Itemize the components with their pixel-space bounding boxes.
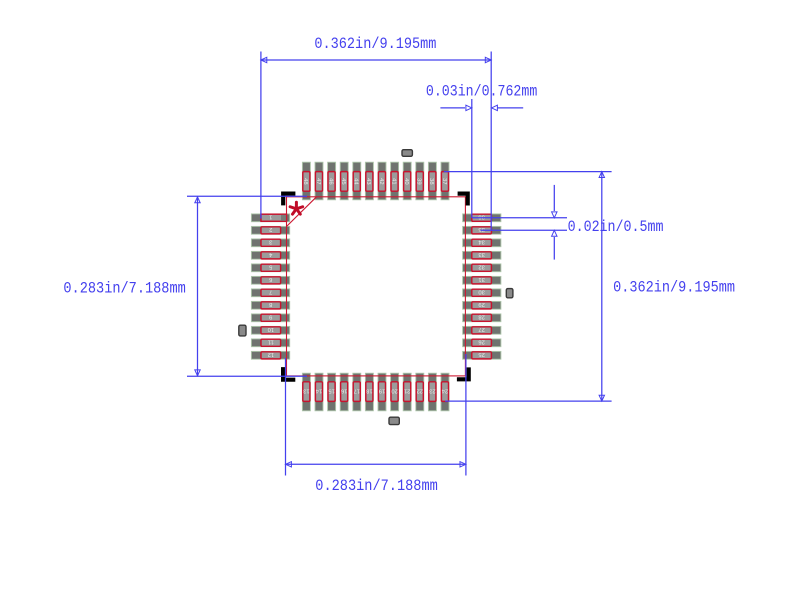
svg-text:2: 2 bbox=[269, 226, 272, 232]
svg-text:12: 12 bbox=[268, 351, 274, 357]
svg-text:0.02in/0.5mm: 0.02in/0.5mm bbox=[568, 218, 664, 236]
pad 10 (pin 10) bbox=[251, 326, 289, 334]
pad 7 (pin 7) bbox=[251, 289, 289, 297]
svg-text:9: 9 bbox=[269, 314, 272, 320]
pad 24 (pin 24) bbox=[441, 373, 449, 411]
pad 26 (pin 26) bbox=[463, 339, 501, 347]
svg-text:31: 31 bbox=[478, 276, 484, 282]
svg-text:47: 47 bbox=[315, 178, 321, 184]
pad 21 (pin 21) bbox=[403, 373, 411, 411]
svg-text:24: 24 bbox=[441, 387, 448, 393]
pad 28 (pin 28) bbox=[463, 314, 501, 322]
pad 34 (pin 34) bbox=[463, 239, 501, 247]
pad 32 (pin 32) bbox=[463, 264, 501, 272]
svg-text:15: 15 bbox=[328, 387, 334, 393]
pad 40 (pin 40) bbox=[403, 162, 411, 200]
pad 37 (pin 37) bbox=[441, 162, 449, 200]
pad 33 (pin 33) bbox=[463, 251, 501, 259]
dimension: bottom body size 0.283in/7.188mm bbox=[286, 354, 466, 495]
silkscreen bracket top-right bbox=[458, 194, 468, 206]
svg-text:29: 29 bbox=[478, 301, 484, 307]
svg-text:23: 23 bbox=[429, 387, 435, 393]
svg-text:5: 5 bbox=[269, 264, 272, 270]
svg-text:0.283in/7.188mm: 0.283in/7.188mm bbox=[315, 477, 438, 495]
pad 38 (pin 38) bbox=[428, 162, 436, 200]
svg-text:25: 25 bbox=[478, 351, 484, 357]
svg-text:27: 27 bbox=[478, 326, 484, 332]
svg-text:37: 37 bbox=[441, 178, 447, 184]
svg-text:14: 14 bbox=[315, 387, 322, 393]
svg-text:32: 32 bbox=[478, 264, 484, 270]
svg-text:0.362in/9.195mm: 0.362in/9.195mm bbox=[613, 278, 735, 296]
svg-text:38: 38 bbox=[428, 178, 434, 184]
svg-text:8: 8 bbox=[269, 301, 272, 307]
svg-text:3: 3 bbox=[269, 239, 272, 245]
pad 36 (pin 36) bbox=[463, 214, 501, 222]
pad 12 (pin 12) bbox=[251, 351, 289, 359]
pad 45 (pin 45) bbox=[340, 162, 348, 200]
svg-text:35: 35 bbox=[478, 226, 484, 232]
pin-1 marker asterisk bbox=[290, 202, 303, 214]
svg-text:0.362in/9.195mm: 0.362in/9.195mm bbox=[314, 35, 436, 53]
pad 16 (pin 16) bbox=[340, 373, 348, 411]
orientation mark bottom bbox=[389, 417, 399, 424]
pad 29 (pin 29) bbox=[463, 301, 501, 309]
pad 25 (pin 25) bbox=[463, 351, 501, 359]
pad 1 (pin 1) bbox=[251, 214, 289, 222]
pad 23 (pin 23) bbox=[428, 373, 436, 411]
svg-text:13: 13 bbox=[303, 387, 309, 393]
orientation mark right bbox=[506, 289, 513, 298]
svg-text:6: 6 bbox=[269, 276, 272, 282]
pad 2 (pin 2) bbox=[251, 226, 289, 234]
svg-text:16: 16 bbox=[341, 387, 347, 393]
pad 3 (pin 3) bbox=[251, 239, 289, 247]
svg-text:10: 10 bbox=[268, 326, 274, 332]
svg-text:40: 40 bbox=[403, 178, 409, 184]
dimension: top lead span 0.362in/9.195mm bbox=[261, 35, 491, 230]
dimension: right lead span 0.362in/9.195mm bbox=[444, 172, 735, 402]
pad 9 (pin 9) bbox=[251, 314, 289, 322]
pad 6 (pin 6) bbox=[251, 276, 289, 284]
dimension: lead length 0.03in/0.762mm bbox=[426, 82, 537, 218]
package body outline bbox=[287, 197, 466, 376]
svg-text:41: 41 bbox=[390, 178, 396, 184]
svg-text:45: 45 bbox=[340, 178, 346, 184]
svg-text:19: 19 bbox=[379, 387, 385, 393]
pad 42 (pin 42) bbox=[378, 162, 386, 200]
pad 31 (pin 31) bbox=[463, 276, 501, 284]
silkscreen bracket bottom-right bbox=[457, 367, 469, 379]
pad 41 (pin 41) bbox=[390, 162, 398, 200]
svg-text:7: 7 bbox=[269, 289, 272, 295]
dimension: left body size 0.283in/7.188mm bbox=[63, 196, 307, 376]
svg-text:22: 22 bbox=[417, 387, 423, 393]
orientation mark left bbox=[239, 325, 246, 336]
pad 47 (pin 47) bbox=[315, 162, 323, 200]
svg-text:11: 11 bbox=[268, 339, 274, 345]
pad 18 (pin 18) bbox=[365, 373, 373, 411]
pad 5 (pin 5) bbox=[251, 264, 289, 272]
svg-text:43: 43 bbox=[365, 178, 371, 184]
orientation mark top bbox=[402, 150, 412, 157]
silkscreen bracket top-left bbox=[283, 194, 295, 206]
pad 46 (pin 46) bbox=[327, 162, 335, 200]
pad 27 (pin 27) bbox=[463, 326, 501, 334]
svg-text:0.03in/0.762mm: 0.03in/0.762mm bbox=[426, 82, 537, 100]
svg-text:33: 33 bbox=[478, 251, 484, 257]
pad 30 (pin 30) bbox=[463, 289, 501, 297]
svg-text:17: 17 bbox=[354, 387, 360, 393]
svg-text:28: 28 bbox=[478, 314, 484, 320]
pad 15 (pin 15) bbox=[328, 373, 336, 411]
svg-text:36: 36 bbox=[478, 214, 484, 220]
svg-text:34: 34 bbox=[478, 239, 485, 245]
pad 43 (pin 43) bbox=[365, 162, 373, 200]
svg-text:26: 26 bbox=[478, 339, 484, 345]
svg-text:1: 1 bbox=[269, 214, 272, 220]
svg-text:21: 21 bbox=[404, 387, 410, 393]
dimension: pad pitch 0.02in/0.5mm bbox=[472, 185, 664, 260]
pad 20 (pin 20) bbox=[391, 373, 399, 411]
pad 35 (pin 35) bbox=[463, 226, 501, 234]
svg-text:18: 18 bbox=[366, 387, 372, 393]
pin-1 chamfer line bbox=[287, 197, 317, 227]
svg-text:46: 46 bbox=[327, 178, 333, 184]
pad 19 (pin 19) bbox=[378, 373, 386, 411]
pad 48 (pin 48) bbox=[302, 162, 310, 200]
pad 11 (pin 11) bbox=[251, 339, 289, 347]
svg-text:39: 39 bbox=[416, 178, 422, 184]
pad 8 (pin 8) bbox=[251, 301, 289, 309]
svg-text:44: 44 bbox=[353, 178, 359, 185]
pad 22 (pin 22) bbox=[416, 373, 424, 411]
pad 44 (pin 44) bbox=[353, 162, 361, 200]
pad 14 (pin 14) bbox=[315, 373, 323, 411]
svg-text:0.283in/7.188mm: 0.283in/7.188mm bbox=[63, 279, 185, 297]
silkscreen bracket bottom-left bbox=[283, 367, 295, 380]
pad 17 (pin 17) bbox=[353, 373, 361, 411]
pad 13 (pin 13) bbox=[302, 373, 310, 411]
svg-text:30: 30 bbox=[478, 289, 484, 295]
pad 4 (pin 4) bbox=[251, 251, 289, 259]
svg-text:42: 42 bbox=[378, 178, 384, 184]
svg-text:48: 48 bbox=[302, 178, 308, 184]
svg-text:20: 20 bbox=[391, 387, 397, 393]
pad 39 (pin 39) bbox=[416, 162, 424, 200]
